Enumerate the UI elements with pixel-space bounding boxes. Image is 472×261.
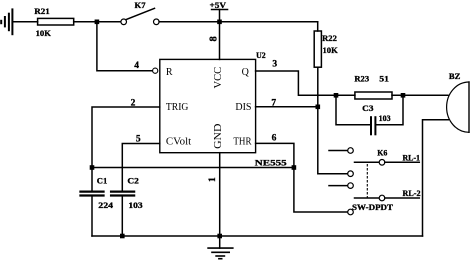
wire pin 3 Q output [256,71,355,95]
svg-text:R23: R23 [354,75,369,84]
capacitor C1 224 [81,177,114,211]
wire TRIG-THR link [92,167,294,169]
svg-text:6: 6 [272,133,277,143]
wire R23 right to buzzer [392,94,448,96]
wire pin 6 THR down to throw 2b of K6 [256,143,348,212]
svg-text:R22: R22 [322,34,337,43]
throw 1a stub [329,150,348,152]
svg-text:224: 224 [98,201,113,210]
svg-text:10K: 10K [323,46,339,55]
wire C3 right branch [375,95,403,125]
svg-text:C1: C1 [97,177,108,186]
svg-text:R: R [166,67,173,78]
wire buzzer bottom to rail [423,120,449,236]
switch K6 SW-DPDT [329,148,394,215]
wire C1 bottom to rail [91,197,93,236]
svg-text:8: 8 [209,36,220,41]
capacitor C3 103 [362,104,390,135]
svg-text:2: 2 [131,99,136,109]
wire R22 bottom down to throw 1b of K6 [318,67,348,174]
resistor R22 10K [314,31,338,67]
throw 2a stub [329,185,348,187]
node junction at R21/K7 branch [95,20,100,25]
pole 2 lever [355,197,380,199]
wire pin 7 DIS [256,106,318,108]
node junction C2/rail [120,234,125,239]
throw 2b contact [348,209,354,215]
dotted mechanical link [366,165,368,198]
wire RL-2 from pole 2 [385,197,420,199]
wire pin 1 GND [219,153,221,236]
svg-text:RL-1: RL-1 [403,153,421,162]
svg-text:1: 1 [208,177,218,182]
wire C3 left branch [336,95,371,125]
op-amp U1 timer IC U2 NE555 box [160,59,256,152]
svg-text:103: 103 [128,201,142,210]
power +5V [210,1,228,22]
wire ground to R21 [13,21,38,23]
svg-text:K6: K6 [377,148,387,157]
svg-text:7: 7 [271,98,276,108]
wire RL-1 from pole 1 [385,161,420,163]
wire pin 2 TRIG [92,107,160,190]
svg-text:R21: R21 [34,7,50,16]
wire R21 to K7 [74,21,121,23]
svg-text:5: 5 [136,135,141,145]
svg-text:NE555: NE555 [255,159,287,168]
svg-text:CVolt: CVolt [166,136,192,147]
throw 1b contact [348,171,354,177]
node junction at +5V [217,20,222,25]
wire C2 bottom to rail [121,197,123,236]
svg-text:GND: GND [213,124,224,149]
svg-text:Q: Q [242,67,250,78]
svg-text:THR: THR [233,136,251,147]
svg-text:U2: U2 [256,51,266,60]
node junction DIS on R22 wire [316,105,321,110]
ground (top-left earth, pointing left) [1,9,12,34]
wire pin 5 CVolt [122,144,160,191]
node junction TRIG link [90,165,95,170]
svg-text:C3: C3 [362,104,373,113]
svg-text:DIS: DIS [235,102,251,113]
wire top rail into R22 [317,22,319,31]
svg-text:C2: C2 [127,177,139,186]
svg-text:BZ: BZ [449,72,461,81]
pole 1 lever [355,161,380,163]
ground (bottom earth) [208,236,233,259]
svg-text:10K: 10K [36,29,52,38]
wire K7 to R22 top corner [159,21,318,23]
node junction Q/C3 left [334,93,339,98]
svg-text:51: 51 [379,75,389,84]
wire bottom rail [92,235,423,237]
node junction R23/C3 right [401,93,406,98]
capacitor C2 103 [111,177,143,211]
svg-text:TRIG: TRIG [166,102,189,113]
svg-text:VCC: VCC [213,66,224,88]
node junction THR link [292,165,297,170]
resistor R21 10K [34,7,73,38]
svg-text:K7: K7 [135,1,146,10]
buzzer BZ [447,72,469,132]
wire pin 8 VCC [219,22,221,60]
wire node down to pin 4 [97,22,153,71]
svg-text:4: 4 [134,61,139,71]
resistor R23 51 [354,75,392,100]
svg-text:SW-DPDT: SW-DPDT [352,203,394,212]
svg-text:3: 3 [272,59,277,69]
node junction pin1/rail [217,234,222,239]
switch K7 [121,1,159,25]
reset bubble at pin 4 [153,68,158,73]
svg-text:RL-2: RL-2 [403,189,421,198]
svg-text:103: 103 [379,114,391,123]
